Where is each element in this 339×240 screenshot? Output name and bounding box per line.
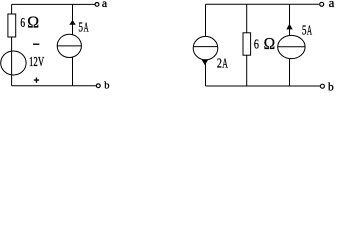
svg-text:a: a xyxy=(102,0,108,10)
node label a (left circuit) xyxy=(102,0,108,10)
wire: left branch vertical xyxy=(11,4,13,85)
wire: 5A branch vertical (right circuit right side) xyxy=(289,4,291,86)
current source I1 5A circle with perpendicular bar (left circuit) xyxy=(57,34,81,57)
wire: right circuit bottom rail xyxy=(206,85,321,87)
wire: left circuit bottom rail xyxy=(12,85,97,87)
svg-text:Ω: Ω xyxy=(27,13,39,32)
value label 5A for I1 xyxy=(78,20,88,35)
wire: right circuit top rail xyxy=(206,3,320,5)
wire: left circuit top rail xyxy=(12,3,96,5)
wire: 5A branch vertical (left circuit) xyxy=(72,4,74,85)
value label 2A for I2 xyxy=(217,56,228,71)
resistor R2 6 ohm (right circuit) xyxy=(243,33,251,55)
value label 6Ω for R2 xyxy=(254,34,275,53)
wire: 6 ohm branch vertical (right circuit middle) xyxy=(246,4,248,86)
value label 5A for I3 xyxy=(302,23,312,38)
svg-text:5: 5 xyxy=(78,20,83,35)
resistor R1 6 ohm (left circuit) xyxy=(8,14,16,37)
terminal b (right circuit) xyxy=(320,84,324,88)
node label b (right circuit) xyxy=(328,82,334,94)
arrowhead of I3 (points up) xyxy=(286,24,292,30)
wire: 2A branch vertical (right circuit left side) xyxy=(205,4,207,86)
terminal b (left circuit) xyxy=(96,84,100,88)
svg-text:b: b xyxy=(328,82,334,94)
node label a (right circuit) xyxy=(329,0,335,10)
svg-text:5: 5 xyxy=(302,23,307,38)
arrowhead of I1 (points up) xyxy=(69,20,75,25)
current source I2 2A circle with perpendicular bar xyxy=(193,36,218,59)
svg-text:b: b xyxy=(104,81,109,92)
value label 12V for V1 xyxy=(29,54,44,69)
svg-text:Ω: Ω xyxy=(264,34,276,53)
svg-text:A: A xyxy=(307,23,312,38)
svg-text:6: 6 xyxy=(20,15,25,30)
svg-text:A: A xyxy=(84,20,89,35)
voltage source V1 12V circle (lead passes through) xyxy=(1,51,26,75)
current source I3 5A circle with perpendicular bar (right circuit) xyxy=(278,35,305,58)
node label b (left circuit) xyxy=(104,81,109,92)
svg-text:6: 6 xyxy=(254,37,259,52)
terminal a (right circuit) xyxy=(320,2,324,6)
polarity plus sign of V1 xyxy=(34,78,39,83)
polarity minus sign of V1 xyxy=(33,43,39,45)
svg-text:12V: 12V xyxy=(29,54,44,69)
arrowhead of I2 (points down) xyxy=(202,60,208,65)
svg-text:A: A xyxy=(222,56,228,71)
terminal a (left circuit) xyxy=(95,3,99,7)
svg-text:a: a xyxy=(329,0,335,10)
value label 6Ω for R1 xyxy=(20,13,39,32)
